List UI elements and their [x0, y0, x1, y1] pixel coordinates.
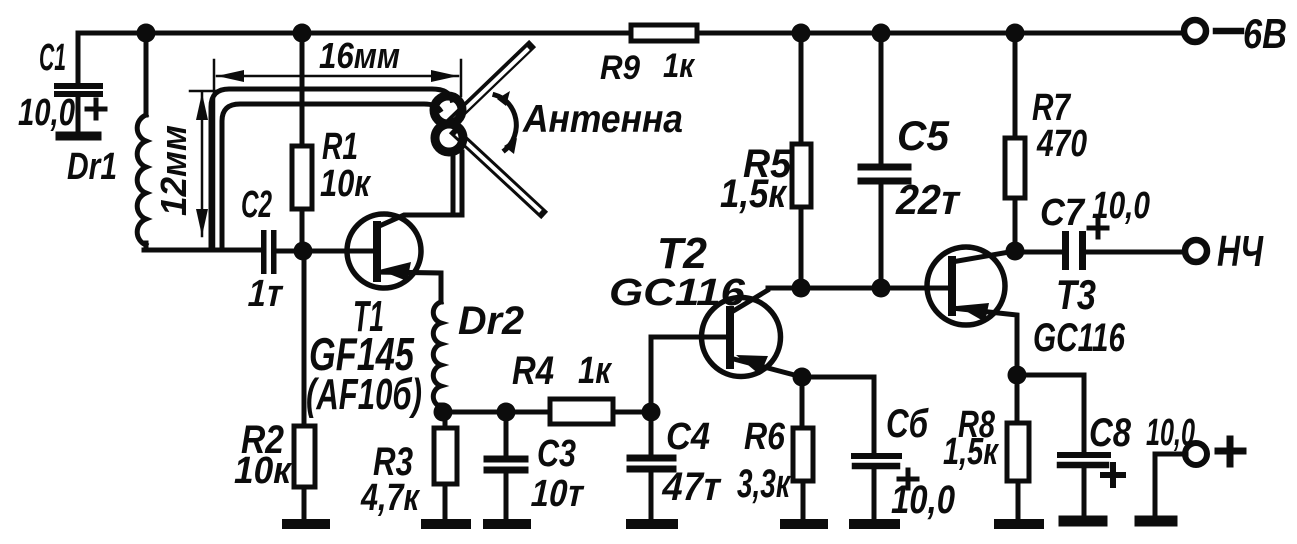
node: R5/collector junction — [792, 279, 811, 298]
dimension 12мм — [153, 91, 217, 236]
svg-text:22т: 22т — [892, 176, 965, 222]
wire: T2 collector rail to T3 base — [768, 286, 952, 291]
capacitor C2 — [241, 184, 304, 315]
inductor Dr2 — [433, 299, 524, 412]
svg-text:10т: 10т — [527, 472, 588, 515]
wire: emitter junction to C6 — [802, 377, 874, 452]
ground (R8) — [999, 519, 1039, 529]
resistor R4 — [512, 349, 651, 424]
ground (C8) — [1064, 516, 1102, 527]
node: rail junction C5 — [872, 24, 891, 43]
terminal -6В — [1184, 10, 1287, 57]
svg-text:C1: C1 — [39, 37, 66, 79]
wire: emitter junction to C8 — [1017, 375, 1084, 450]
node: Dr2/R3 junction — [434, 403, 453, 422]
resistor R9 — [600, 25, 697, 87]
svg-text:1т: 1т — [244, 272, 287, 315]
wire: junction down to R2 — [302, 251, 307, 426]
wire: bottom-left wire Dr1 to C2 — [144, 248, 261, 253]
resistor R2 — [234, 418, 315, 518]
node: C5/collector junction — [872, 279, 891, 298]
resistor R1 — [292, 33, 371, 251]
transistor T3 — [927, 247, 1126, 375]
transistor T2 — [609, 229, 802, 377]
antenna rotation arc arrow — [495, 91, 517, 154]
node: T2 emitter junction — [793, 368, 812, 387]
inductor Dr1 — [67, 33, 146, 250]
resistor R6 — [737, 377, 813, 518]
svg-text:10,0: 10,0 — [1146, 412, 1195, 454]
ground (C4) — [631, 519, 673, 529]
node: rail junction R5 — [792, 24, 811, 43]
resistor R5 — [720, 33, 811, 288]
svg-text:R1: R1 — [322, 126, 358, 168]
node: T3 collector junction — [1006, 242, 1025, 261]
svg-text:C7: C7 — [1040, 192, 1086, 234]
capacitor C6 — [854, 402, 955, 522]
svg-text:1,5к: 1,5к — [720, 172, 787, 216]
resistor R7 — [1005, 33, 1087, 251]
svg-text:16мм: 16мм — [319, 35, 400, 76]
svg-text:10,0: 10,0 — [18, 92, 75, 134]
dimension 16мм — [214, 35, 461, 250]
capacitor C8 — [1060, 375, 1132, 518]
capacitor C3 — [487, 412, 588, 518]
svg-text:Сб: Сб — [886, 402, 929, 446]
transistor T1 — [306, 214, 461, 419]
svg-text:(AF10б): (AF10б) — [306, 370, 422, 419]
svg-text:НЧ: НЧ — [1217, 227, 1264, 276]
svg-text:R9: R9 — [600, 49, 640, 87]
svg-text:GC116: GC116 — [1033, 316, 1126, 360]
node: rail junction R7 — [1006, 24, 1025, 43]
wire: junction to T1 base — [303, 249, 377, 254]
svg-text:Dr2: Dr2 — [458, 299, 524, 343]
wire: junction up to T2 base — [651, 337, 730, 412]
wire: top supply rail — [78, 31, 1182, 36]
node: base junction (C2/R1/R2/T1) — [294, 242, 313, 261]
svg-text:C8: C8 — [1089, 411, 1132, 455]
ground (terminal) — [1140, 516, 1172, 527]
terminal + output — [1146, 412, 1243, 518]
svg-text:12мм: 12мм — [153, 125, 194, 216]
capacitor C7 — [1015, 185, 1183, 270]
svg-text:1к: 1к — [663, 47, 696, 85]
svg-text:GC116: GC116 — [609, 272, 746, 314]
svg-text:C5: C5 — [897, 112, 950, 159]
svg-text:C3: C3 — [537, 433, 576, 475]
antenna rod (two outlined segments) — [453, 47, 541, 212]
terminal НЧ — [1185, 227, 1264, 276]
svg-text:C4: C4 — [666, 416, 710, 458]
svg-text:Антенна: Антенна — [522, 98, 683, 141]
svg-text:10к: 10к — [234, 450, 293, 492]
ground (R6) — [785, 519, 823, 529]
resistor R3 — [360, 412, 457, 519]
svg-text:10,0: 10,0 — [1092, 185, 1150, 227]
svg-text:6В: 6В — [1243, 10, 1287, 57]
node: T3 emitter junction — [1008, 366, 1027, 385]
antenna coupling loops — [434, 96, 463, 152]
ground (C6) — [854, 519, 895, 529]
node: R4/C4/T2-base junction — [642, 403, 661, 422]
wire: Dr2 junction to C3 junction — [443, 410, 506, 415]
capacitor C4 — [630, 412, 726, 518]
capacitor C5 — [861, 33, 965, 288]
svg-text:T3: T3 — [1056, 271, 1096, 318]
svg-text:10к: 10к — [320, 163, 371, 205]
resistor R8 — [943, 375, 1029, 518]
ground (R3) — [426, 519, 466, 529]
svg-text:3,3к: 3,3к — [737, 462, 791, 506]
capacitor C1 — [18, 33, 105, 136]
svg-text:R6: R6 — [744, 416, 786, 458]
svg-text:470: 470 — [1036, 123, 1087, 165]
svg-text:10,0: 10,0 — [891, 478, 955, 522]
svg-text:C2: C2 — [241, 184, 272, 226]
svg-text:R4: R4 — [512, 349, 554, 393]
svg-text:T2: T2 — [657, 229, 708, 278]
svg-text:Dr1: Dr1 — [67, 146, 117, 188]
svg-text:1к: 1к — [578, 350, 612, 392]
svg-text:4,7к: 4,7к — [360, 477, 420, 519]
node: rail junction Dr1 — [137, 24, 156, 43]
svg-text:1,5к: 1,5к — [943, 431, 999, 473]
ground (R2) — [287, 519, 325, 529]
node: C3/R4 junction — [497, 403, 516, 422]
node: rail junction R1 — [293, 24, 312, 43]
svg-text:47т: 47т — [658, 463, 726, 508]
wire: C3 junction to R4 — [506, 410, 552, 415]
loop antenna frame (double line) — [211, 89, 462, 250]
ground (C3) — [488, 519, 526, 529]
